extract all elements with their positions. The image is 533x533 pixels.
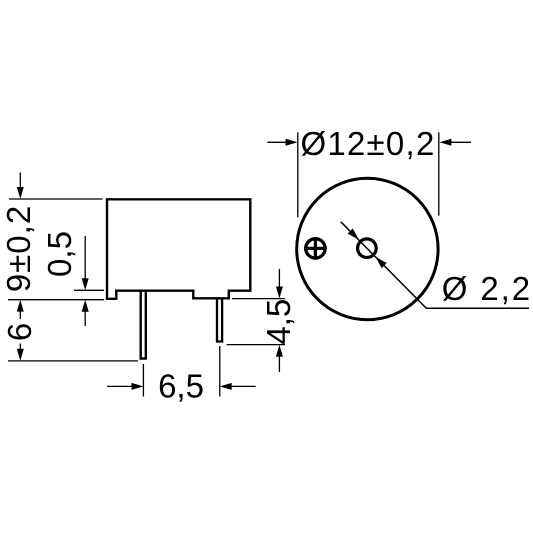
leader upper arrowhead xyxy=(348,229,359,240)
extension line circle left xyxy=(297,132,299,217)
svg-text:Ø12±0,2: Ø12±0,2 xyxy=(300,125,435,162)
dimension 9±0,2 top arrow xyxy=(17,172,24,199)
svg-text:4,5: 4,5 xyxy=(260,299,297,345)
extension line pin bottom (y=360.9) xyxy=(8,360,138,362)
top view outer circle xyxy=(297,178,438,319)
extension line 4,5 bottom (y=344.6) xyxy=(227,344,286,346)
extension line top of body (y=199) xyxy=(9,198,103,200)
extension line 4,5 top (y=298.6) xyxy=(232,298,285,300)
dimension 6,5 right arrow xyxy=(220,383,256,390)
dimension 4,5 up arrow xyxy=(276,345,283,372)
dimension Ø12 right arrow xyxy=(440,139,472,146)
dimension Ø12 left arrow xyxy=(267,139,297,146)
extension line notch bottom (y=299.7) xyxy=(8,299,104,301)
svg-text:6: 6 xyxy=(1,323,38,341)
extension line circle right xyxy=(438,132,440,215)
svg-text:9±0,2: 9±0,2 xyxy=(0,205,37,292)
dimension 4,5 down arrow xyxy=(276,269,283,298)
crosshair symbol (oplus) xyxy=(304,237,327,260)
dimension 9±0,2 / 6 shared up arrow xyxy=(17,300,24,319)
leader lower arrowhead xyxy=(375,257,386,268)
left pin xyxy=(141,291,146,359)
extension line left pin center xyxy=(142,364,144,397)
extension tick at body bottom (y=290.3) xyxy=(74,289,104,291)
extension line right pin center xyxy=(219,346,221,397)
svg-text:0,5: 0,5 xyxy=(41,231,78,277)
buzzer body outline (side view) xyxy=(107,199,250,298)
svg-text:6,5: 6,5 xyxy=(158,367,204,404)
right pin xyxy=(217,298,222,341)
svg-text:Ø 2,2: Ø 2,2 xyxy=(442,270,532,307)
dimension 0,5 down arrow xyxy=(82,236,89,290)
dimension 6,5 left arrow xyxy=(107,383,143,390)
center hole circle xyxy=(358,239,377,258)
dimension 6 down arrow xyxy=(17,344,24,361)
dimension 0,5 up arrow xyxy=(82,300,89,326)
leader line for hole diameter xyxy=(341,222,529,308)
